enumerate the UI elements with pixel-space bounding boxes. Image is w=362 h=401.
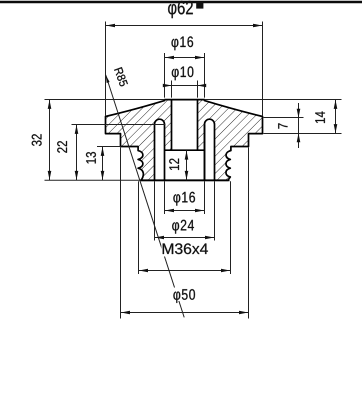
- dimension 7 line with outside arrows: [297, 103, 301, 148]
- extension line thread top for 13: [97, 146, 121, 148]
- extension line flange bottom for 7 and 14: [264, 133, 342, 135]
- dimension phi16 bottom line: [165, 209, 205, 213]
- dimension phi24 text: [172, 220, 194, 234]
- dimension phi10 line with outside arrows: [163, 84, 206, 88]
- annular groove left: [155, 119, 165, 180]
- dimension M36x4 line: [139, 269, 231, 273]
- dimension phi16 top extension lines: [165, 53, 205, 98]
- dimension M36x4 extension lines: [139, 181, 231, 274]
- dimension phi16 top text: [172, 36, 194, 50]
- part outer profile: [106, 100, 263, 181]
- dimension phi10 text: [172, 66, 194, 80]
- dimension 12 line: [185, 150, 189, 180]
- dimension phi62 extension lines: [106, 22, 263, 116]
- dimension phi24 extension lines: [155, 181, 215, 240]
- dimension phi62 text: [168, 1, 203, 18]
- dimension 14 text: [315, 112, 325, 124]
- dimension phi16 top line: [165, 56, 205, 60]
- hole phi10 walls and shoulder: [165, 100, 205, 151]
- extension line part bottom for 32/22/13: [45, 179, 141, 181]
- dimension 14 line: [334, 100, 338, 134]
- dimension phi50 text: [171, 288, 199, 303]
- annular groove right: [205, 119, 215, 180]
- dimension 7 text: [278, 123, 287, 128]
- dimension phi50 extension lines: [121, 148, 249, 319]
- dimension phi50 line: [121, 311, 249, 315]
- bore phi16 walls: [165, 124, 205, 180]
- dimension 22 line: [75, 125, 79, 181]
- hatched section material: [106, 100, 263, 181]
- leader text R85: [114, 67, 128, 87]
- dimension 32 text: [32, 134, 42, 146]
- dimension phi24 line: [155, 236, 215, 240]
- bottom edge: [140, 179, 230, 181]
- extension line flange top corner for 7: [264, 117, 304, 119]
- dimension phi62 line: [106, 24, 263, 28]
- dimension 22 text: [57, 141, 67, 153]
- dimension phi16 bottom extension lines: [165, 181, 205, 214]
- dimension M36x4 text: [161, 243, 208, 257]
- dimension 32 line: [48, 100, 52, 181]
- dimension 12 text: [169, 159, 179, 170]
- extension line boss top for 32 and 14: [45, 99, 342, 101]
- dimension phi10 extension lines: [172, 81, 198, 98]
- leader line R85: [106, 75, 185, 318]
- extension line groove top for 22: [72, 124, 166, 126]
- dimension phi16 bottom text: [173, 192, 195, 206]
- top border line: [0, 1, 362, 4]
- dimension 13 text: [86, 152, 96, 163]
- dimension 13 line: [101, 147, 105, 181]
